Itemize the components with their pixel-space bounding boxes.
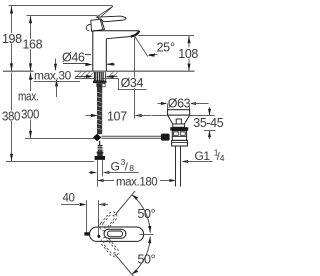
max.380 down arrow xyxy=(11,123,13,161)
max.30 dimension arrows xyxy=(55,59,57,72)
svg-text:40: 40 xyxy=(63,193,75,205)
drain: O63 dimension xyxy=(158,103,165,105)
dimension 107 xyxy=(86,115,95,117)
label 108 xyxy=(177,47,199,58)
label max.180 xyxy=(116,176,160,187)
handle knob/loop body xyxy=(91,19,105,31)
dimension 168 vertical line xyxy=(30,16,32,71)
handle plan view capsule xyxy=(90,227,144,241)
pop-up rod (double line) to drain xyxy=(102,135,161,137)
waste tailpipe xyxy=(175,146,177,187)
label O34 flag xyxy=(118,79,120,90)
waste plug cap xyxy=(168,110,190,116)
basin section lines at drain xyxy=(152,115,168,117)
dashed rotated lever ring (upper, +50deg) xyxy=(98,210,119,233)
label 107 xyxy=(107,110,129,121)
25 degree leader arrow xyxy=(149,54,158,56)
svg-text:380: 380 xyxy=(2,110,20,124)
svg-text:max.: max. xyxy=(18,90,39,104)
horseshoe washer xyxy=(93,81,107,84)
svg-text:4: 4 xyxy=(220,153,225,163)
pivot axis vertical line xyxy=(98,200,100,227)
svg-text:Ø63: Ø63 xyxy=(168,96,191,110)
waste taper xyxy=(168,115,190,124)
svg-text:max.180: max.180 xyxy=(116,176,157,188)
label 168 xyxy=(22,39,43,50)
faucet body right edge xyxy=(105,39,107,71)
inner lever ring outer xyxy=(104,229,126,238)
mounting shank below deck xyxy=(94,72,103,81)
108 top extension line from spout tip xyxy=(138,35,194,37)
dashed rotated lever ring (lower, -50deg) xyxy=(99,235,120,258)
aerator tick xyxy=(84,232,89,235)
label max. (for 300) xyxy=(17,93,40,102)
spout tip wedge xyxy=(131,31,139,37)
waste notch xyxy=(176,119,181,124)
deck top line xyxy=(3,70,195,72)
svg-text:198: 198 xyxy=(2,32,22,46)
G3/8 diameter arrows xyxy=(89,172,94,174)
dimension 35-45 arrows xyxy=(209,107,211,115)
label 198 xyxy=(2,33,24,44)
dimension 198 vertical line xyxy=(11,6,13,71)
rod knob on waste xyxy=(161,134,170,141)
50deg arc lower xyxy=(132,237,150,275)
label 380 xyxy=(1,111,21,122)
label max.30 xyxy=(34,70,75,80)
handle loop inner line xyxy=(100,19,103,29)
label O63 xyxy=(167,97,192,108)
svg-text:300: 300 xyxy=(21,107,39,121)
spout underside xyxy=(106,37,131,39)
svg-text:Ø34: Ø34 xyxy=(121,76,144,90)
braided supply hose xyxy=(97,87,102,134)
dimension 108 vertical xyxy=(188,36,190,72)
hose end tube extension lines xyxy=(97,160,99,187)
deck hatching left xyxy=(75,72,94,79)
50deg leader line lower xyxy=(115,254,135,276)
mounting nut xyxy=(96,83,102,87)
label G3/8 with underline xyxy=(106,172,139,174)
waste neck xyxy=(173,124,185,127)
dimension max.180 xyxy=(97,179,104,182)
25 degree slanted line xyxy=(135,36,148,57)
waste body xyxy=(172,131,186,141)
inner lever ring inner xyxy=(107,231,122,237)
svg-text:°: ° xyxy=(170,40,175,54)
left extension line (spout tip axis) xyxy=(86,200,88,233)
50deg leader line upper xyxy=(115,191,135,215)
label G1 1/4 with leader xyxy=(182,160,189,163)
max.380 level line xyxy=(6,161,94,163)
svg-text:8: 8 xyxy=(129,163,134,173)
handle loop left curl xyxy=(86,24,91,31)
pivot dot xyxy=(97,235,100,238)
dimension 168 extension line xyxy=(27,15,98,17)
O34 arrows at deck xyxy=(76,76,87,78)
O63 extension lines xyxy=(167,104,169,111)
50deg arc upper xyxy=(132,195,150,233)
dimension max.380 vertical (upper part) xyxy=(11,73,13,124)
waste lower body xyxy=(172,140,188,146)
svg-text:G1: G1 xyxy=(195,149,211,163)
pivot axis line inside capsule xyxy=(98,227,100,236)
G3/8 threaded end xyxy=(98,145,103,152)
svg-text:108: 108 xyxy=(178,47,198,61)
O46 arrows xyxy=(85,63,92,66)
dimension max.300 vertical top arrow xyxy=(30,73,32,92)
centerline right xyxy=(140,234,154,236)
hose lower link xyxy=(99,141,101,145)
svg-text:G: G xyxy=(111,160,120,174)
deck bottom line xyxy=(30,78,119,80)
svg-text:107: 107 xyxy=(107,109,127,123)
svg-text:Ø46: Ø46 xyxy=(62,50,85,64)
svg-text:25: 25 xyxy=(157,40,171,54)
label 35-45 xyxy=(192,117,225,128)
lever raised phantom (open position sliver) xyxy=(97,6,114,18)
svg-text:50°: 50° xyxy=(138,207,156,221)
dimension 40 xyxy=(62,193,77,203)
max.300 down arrow xyxy=(30,120,32,139)
pop-up rod joint on hose xyxy=(93,134,102,141)
faucet body top edge / spout top xyxy=(93,30,139,32)
handle lever blade xyxy=(97,16,126,22)
svg-text:168: 168 xyxy=(23,37,43,51)
hose end nut xyxy=(95,156,105,160)
label 300 xyxy=(20,109,41,120)
faucet body left edge xyxy=(92,31,94,71)
max.300 level line xyxy=(25,138,94,140)
dimension 198 extension line (top) xyxy=(9,5,113,7)
svg-text:35-45: 35-45 xyxy=(193,116,223,130)
svg-text:max.30: max.30 xyxy=(34,68,72,82)
waste gasket xyxy=(170,127,188,130)
svg-text:50°: 50° xyxy=(138,252,156,266)
deck hatching right xyxy=(107,72,118,79)
25 degree extension vertical from spout tip xyxy=(134,36,136,119)
